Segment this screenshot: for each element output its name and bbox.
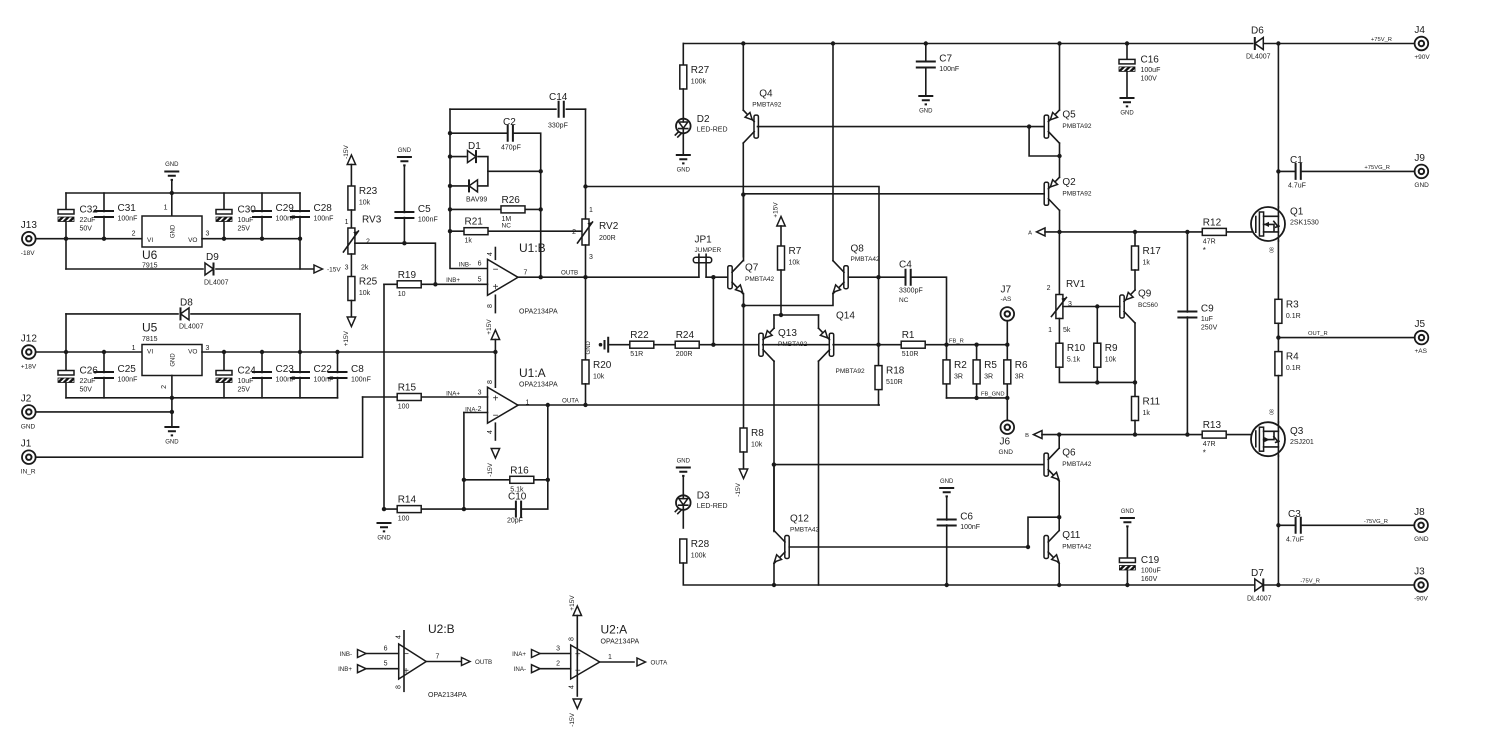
resistor R8 [740,428,747,452]
svg-text:C16: C16 [1141,54,1160,65]
svg-text:2: 2 [1047,285,1051,292]
connector J12 [22,345,36,359]
svg-text:R11: R11 [1143,397,1161,408]
svg-text:PMBTA42: PMBTA42 [1062,544,1092,551]
wire C14 right to RV2 [585,109,587,219]
svg-text:R7: R7 [789,246,802,257]
resistor R15 [397,394,421,401]
wire D3 to R28 [682,510,684,528]
connector J4 [1415,37,1429,51]
wire C5 leads [403,166,405,244]
svg-text:50V: 50V [80,226,93,233]
junction R16 left / INA- column [462,478,466,482]
svg-text:U1:A: U1:A [519,366,546,380]
svg-text:10uF: 10uF [238,217,254,224]
net arrow -15V (R23 top) [347,155,355,165]
resistor R13 [1202,431,1226,438]
wire Q5 emitter to rail [1059,44,1061,111]
svg-text:7: 7 [524,269,528,276]
svg-text:R1: R1 [902,330,915,341]
capacitor C30 [216,210,232,222]
junction R21 / rail [448,229,452,233]
wire C8 leads [337,352,339,398]
net arrow OUTA [637,658,646,666]
resistor R26 [501,206,525,213]
capacitor C8 [328,372,348,378]
svg-text:C7: C7 [939,54,952,65]
junction D1 tap / C2 drop [539,169,543,173]
svg-text:C3: C3 [1288,509,1301,520]
svg-text:8: 8 [396,685,403,689]
wire FB_GND line [947,397,1008,399]
wire Q11 emitter to -75V rail [1058,564,1060,586]
svg-text:Q4: Q4 [759,89,773,100]
svg-text:R20: R20 [593,360,612,371]
svg-text:FB_GND: FB_GND [981,391,1005,397]
transistor Q14 [819,328,834,361]
net arrow OUTB [462,658,471,666]
svg-text:GND: GND [165,162,179,168]
ground (C16) [1120,98,1135,106]
svg-text:R14: R14 [398,495,417,506]
wire left feedback rail to INB- [450,109,488,268]
wire INB+ input [366,668,399,670]
wire Q4 collector down to Q7 collector [742,143,744,257]
svg-text:J9: J9 [1414,153,1425,164]
junction C24 / +15V rail [222,350,226,354]
svg-text:R4: R4 [1286,352,1299,363]
op-amp U1:B [488,259,519,295]
svg-text:Q3: Q3 [1290,426,1304,437]
svg-text:U6: U6 [142,248,158,262]
svg-text:100uF: 100uF [1141,67,1161,74]
wire INB- input [366,653,399,655]
svg-text:R19: R19 [398,270,417,281]
wire U1:A pin 4 stub [494,423,496,440]
svg-text:PMBTA92: PMBTA92 [1062,123,1092,130]
svg-text:OUTA: OUTA [651,660,669,667]
junction R20 / OUTA [583,403,587,407]
wire rail to R27 [682,44,684,66]
svg-text:J13: J13 [21,220,38,231]
transistor Q11 [1044,531,1061,565]
wire R17 to Q9 emitter [1134,270,1136,290]
svg-text:+AS: +AS [1415,348,1428,355]
junction +15V rail / op-amp supply [493,350,497,354]
svg-text:3: 3 [345,265,349,272]
junction feedback / OUTA [546,403,550,407]
svg-text:160V: 160V [1141,576,1158,583]
svg-text:DL4007: DL4007 [1246,54,1271,61]
junction C23 / +15V rail [260,350,264,354]
svg-text:3: 3 [206,231,210,238]
svg-text:8: 8 [569,637,576,641]
svg-text:*: * [1203,246,1206,255]
svg-text:10k: 10k [789,260,801,267]
ground (C19) [1120,518,1135,526]
svg-text:R22: R22 [630,330,649,341]
wire to D1 top diode [450,156,466,158]
junction Q13 collector / Q6 base / Q12 collector [772,462,776,466]
junction D7 / Q3 drain / J3 line [1276,583,1280,587]
junction C4-R2 / FB_R line [944,343,948,347]
svg-text:3: 3 [556,646,560,653]
potentiometer RV2 [578,219,593,245]
svg-text:FB_R: FB_R [949,339,964,345]
svg-text:C23: C23 [276,364,295,375]
diode D8 [181,307,190,320]
wire R26 leads [450,208,541,210]
svg-text:*: * [1203,449,1206,458]
svg-text:5.1k: 5.1k [510,486,524,493]
junction R6 / FB_GND [1005,396,1009,400]
wire Q4-Q5 base line [758,126,1045,128]
junction C1 / drain column [1276,169,1280,173]
junction C32 / -18V line [64,237,68,241]
wire Q9 collector down [1134,323,1136,382]
wire RV1 wiper to Q9 base [1063,306,1120,308]
svg-text:R23: R23 [359,186,378,197]
svg-text:Q5: Q5 [1062,110,1076,121]
resistor R28 [680,539,687,563]
svg-text:-15V: -15V [343,144,350,158]
svg-text:0.1R: 0.1R [1286,365,1301,372]
wire D1 bottom to rail [450,185,469,187]
svg-text:C5: C5 [418,204,431,215]
svg-text:Q12: Q12 [790,514,809,525]
wire INA- to feedback node [463,413,465,510]
svg-text:J1: J1 [21,439,32,450]
svg-text:U5: U5 [142,321,158,335]
svg-text:INB-: INB- [340,651,352,658]
svg-text:D9: D9 [206,252,219,263]
junction C22 / +15V rail [298,350,302,354]
resistor R14 [397,506,421,513]
op-amp U1:A [488,387,519,423]
wire U1:B pin 4 stub [494,248,496,260]
resistor R7 [778,246,785,270]
svg-text:OUTA: OUTA [562,398,580,405]
svg-text:GND: GND [677,168,691,174]
wire D8 loop to +15V rail [299,314,301,352]
junction Q5 base tie [1027,124,1031,128]
wire R21 to RV2 pin 2 [450,230,582,232]
svg-text:C9: C9 [1201,304,1214,315]
svg-text:+: + [493,393,499,404]
wire C31 leads [103,193,105,239]
svg-text:470pF: 470pF [501,145,521,152]
svg-text:200R: 200R [599,235,616,242]
wire R20 to OUTA [585,384,587,405]
svg-text:4: 4 [569,685,576,689]
resistor R16 [510,476,534,483]
resistor R19 [397,281,421,288]
svg-text:GND: GND [999,449,1014,456]
wire R1 line [879,344,1008,346]
svg-text:R18: R18 [886,366,905,377]
wire Q6 emitter down [1058,481,1060,530]
svg-text:3: 3 [589,254,593,261]
svg-text:R3: R3 [1286,299,1299,310]
wire C19 leads [1126,527,1128,586]
wire R11 to B rail [1134,421,1136,435]
wire C3 to J8 [1278,524,1414,526]
svg-text:A: A [1028,230,1032,236]
capacitor C7 [916,62,936,68]
wire U6 VO -15V line [202,238,300,240]
junction R9 / wiper line [1095,304,1099,308]
svg-text:C8: C8 [351,364,364,375]
connector J13 [22,232,36,246]
svg-text:LED-RED: LED-RED [697,127,728,134]
wire Q11 base tie [1028,517,1059,547]
svg-text:-15V: -15V [327,267,341,274]
svg-text:-18V: -18V [21,250,35,257]
junction C7 / top rail [924,41,928,45]
junction C9 / A rail [1185,230,1189,234]
svg-text:100k: 100k [691,79,707,86]
svg-text:R8: R8 [751,428,764,439]
ground (R14) [377,523,392,531]
svg-text:2k: 2k [361,265,369,272]
wire A rail to R17 [1134,232,1136,246]
connector J2 [22,405,36,419]
wire +75V_R to J4 [1264,43,1415,45]
svg-text:PMBTA42: PMBTA42 [1062,461,1092,468]
wire C16 leads [1126,44,1128,99]
svg-text:C19: C19 [1141,555,1160,566]
svg-text:INA+: INA+ [512,651,526,658]
connector J1 [22,450,36,464]
transistor Q8 [831,261,848,295]
junction JP1 column / base line [711,343,715,347]
wire R6 / J7-J6 column [1006,321,1008,420]
svg-text:U2:B: U2:B [428,622,455,636]
junction R5 / FB_R line [974,343,978,347]
capacitor C28 [290,211,310,217]
svg-text:GND: GND [171,353,177,367]
svg-text:20pF: 20pF [507,518,523,525]
svg-text:1k: 1k [1143,410,1151,417]
svg-text:1k: 1k [465,238,473,245]
net arrow INB- [358,650,367,658]
svg-text:100nF: 100nF [351,377,371,384]
junction RV2 column / OUTB [583,275,587,279]
capacitor C14 [559,101,564,118]
svg-text:3: 3 [478,389,482,396]
svg-text:510R: 510R [886,379,903,386]
wire C23 leads [261,352,263,398]
svg-text:J4: J4 [1414,25,1425,36]
svg-text:2: 2 [366,239,370,246]
transistor Q5 [1044,110,1059,143]
svg-text:10: 10 [398,291,406,298]
resistor R27 [680,65,687,89]
wire C9 leads [1186,232,1188,435]
svg-text:INB+: INB+ [446,277,460,284]
potentiometer RV3 [343,228,358,254]
svg-text:J2: J2 [21,393,32,404]
wire C26 leads [65,314,67,398]
wire R23 to RV3 [350,210,352,228]
svg-text:C29: C29 [276,203,295,214]
resistor R2 [943,360,950,384]
net label -15V output arrow [314,265,323,273]
svg-text:RV2: RV2 [599,221,619,232]
junction R5 / FB_GND [974,396,978,400]
svg-text:250V: 250V [1201,325,1218,332]
svg-text:100nF: 100nF [314,216,334,223]
svg-text:GND: GND [1121,509,1135,515]
svg-text:-15V: -15V [487,462,494,476]
svg-text:C1: C1 [1290,155,1303,166]
svg-text:330pF: 330pF [548,123,568,130]
svg-text:-AS: -AS [1001,296,1013,303]
wire Q12-Q11 base line [789,546,1028,548]
wire C7 leads [925,44,927,97]
junction R16 right / OUTA drop [546,478,550,482]
svg-text:R17: R17 [1143,246,1162,257]
svg-text:DL4007: DL4007 [204,280,229,287]
junction J7 / FB_R line [1005,343,1009,347]
svg-text:BC560: BC560 [1138,302,1158,309]
junction Q11 emitter / -75V rail [1057,583,1061,587]
ground (D3) [676,468,691,476]
junction Q12 emitter / -75V rail [772,583,776,587]
junction Q8 base / C4 / drop [876,275,880,279]
svg-text:8: 8 [487,380,494,384]
LED D3 [675,494,690,513]
wire R22/R24 line [608,344,758,346]
wire -75V_R to J3 [1265,584,1415,586]
op-amp U2:A [571,645,600,679]
svg-text:3300pF: 3300pF [899,288,923,295]
svg-text:1: 1 [345,219,349,226]
svg-text:GND: GND [677,459,691,465]
wire R14-C10 feedback line [384,405,548,509]
wire C2 loop [450,133,541,277]
wire OUT_R to J5 [1278,337,1414,339]
svg-text:3R: 3R [984,373,993,380]
junction C8 / +15V rail [335,350,339,354]
resistor R22 [630,341,654,348]
svg-text:INA-: INA- [514,666,526,673]
svg-text:100nF: 100nF [118,216,138,223]
svg-text:PMBTA92: PMBTA92 [836,368,866,375]
resistor R1 [901,341,925,348]
svg-text:OUTB: OUTB [561,270,578,277]
junction C28 / -15V line [298,237,302,241]
svg-text:100V: 100V [1141,75,1158,82]
svg-text:INB-: INB- [459,261,471,268]
svg-text:1: 1 [608,654,612,661]
wire C1 to J9 [1278,170,1414,172]
connector J3 [1414,578,1428,592]
capacitor C1 [1296,163,1301,180]
junction C29 / -15V line [260,237,264,241]
resistor R12 [1202,228,1226,235]
svg-text:R5: R5 [984,360,997,371]
wire J12 to U5 VI [36,351,142,353]
svg-text:+75V_R: +75V_R [1371,37,1392,43]
junction base line / R18 column [876,343,880,347]
jumper JP1 [693,257,711,263]
svg-text:GND: GND [171,224,177,238]
wire R9 leads [1096,307,1098,383]
svg-text:R28: R28 [691,539,710,550]
svg-text:+75VG_R: +75VG_R [1364,165,1390,171]
junction C2 line / rail [448,131,452,135]
svg-text:C6: C6 [960,512,973,523]
wire Q5 base-collector tie [1029,127,1059,156]
potentiometer RV1 [1051,295,1066,319]
svg-text:R12: R12 [1203,217,1222,228]
wire Q4 emitter to rail [742,44,744,111]
wire D1 centre tap [488,170,541,172]
wire Q2 collector to A rail [1059,210,1061,232]
svg-text:25V: 25V [238,226,251,233]
junction C5 / wiper line [402,241,406,245]
svg-text:5: 5 [478,277,482,284]
svg-text:U1:B: U1:B [519,241,546,255]
svg-text:J7: J7 [1001,285,1012,296]
svg-text:B: B [1025,433,1029,439]
junction D1 top / rail [448,154,452,158]
svg-text:100nF: 100nF [960,524,980,531]
svg-text:1k: 1k [1143,260,1151,267]
capacitor C29 [252,211,272,217]
transistor Q6 [1044,448,1061,482]
svg-text:-90V: -90V [1414,596,1428,603]
svg-text:IN_R: IN_R [21,469,36,476]
wire R8 to -15V arrow [743,452,745,469]
svg-text:+: + [493,282,499,293]
wire Q7 emitter down to R8 [743,294,745,428]
net arrow +15V (U2:A) [573,606,581,616]
wire C32 leads [65,193,67,269]
wire JP1 to Q7 base [706,276,728,278]
junction RV2 column / C4 feed line [583,184,587,188]
junction C31 / -18V line [102,237,106,241]
junction C2 drop / OUTB [539,275,543,279]
wire OUTB output [426,661,461,663]
wire C29 leads [261,193,263,239]
transistor Q12 [772,531,789,565]
junction GND bus / U5 pin 2 [170,396,174,400]
svg-text:C14: C14 [549,92,568,103]
svg-text:D8: D8 [180,298,193,309]
wire J1 IN_R to R15 [36,397,363,457]
wire Q8 emitter link [744,294,834,306]
svg-text:C25: C25 [118,364,137,375]
svg-text:4: 4 [487,430,494,434]
resistor R25 [348,277,355,301]
wire Q1 drain column [1277,44,1279,208]
svg-text:JP1: JP1 [695,235,713,246]
wire R10/R9 bottom rail [1059,367,1135,382]
wire R7 to emitter rail [780,270,782,315]
junction D6 / Q1 drain [1276,41,1280,45]
LED D2 [675,118,690,138]
svg-text:7: 7 [436,654,440,661]
wire OUTB [518,276,699,278]
svg-text:J12: J12 [21,334,38,345]
net arrow A [1037,228,1046,236]
svg-text:+15V: +15V [486,319,493,335]
svg-text:DL4007: DL4007 [179,324,204,331]
svg-text:+18V: +18V [21,364,37,371]
svg-text:GND: GND [398,148,412,154]
